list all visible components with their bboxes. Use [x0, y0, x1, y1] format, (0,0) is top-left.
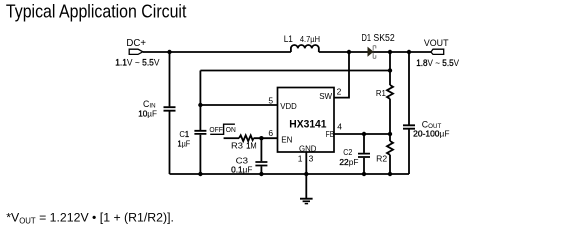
node input junction	[167, 50, 171, 54]
svg-text:4: 4	[337, 122, 342, 132]
wire COUT branch lower	[408, 130, 410, 175]
wire rail from inductor to VOUT port	[319, 51, 431, 53]
node SW rail junction	[347, 50, 351, 54]
wire output divider branch upper	[389, 52, 391, 85]
svg-text:ON: ON	[226, 125, 236, 134]
svg-text:VOUT: VOUT	[424, 38, 449, 48]
svg-text:R1: R1	[376, 88, 386, 98]
wire R1 to FB	[389, 99, 391, 141]
wire C2 branch lower	[363, 158, 365, 174]
switch OFF/ON symbol	[210, 124, 235, 134]
resistor R2 zigzag	[387, 141, 393, 155]
wire C3 branch upper	[260, 138, 262, 161]
capacitor C2 plates	[358, 154, 370, 157]
svg-text:SK52: SK52	[373, 33, 394, 44]
capacitor CIN plates	[164, 107, 176, 111]
wire input rail	[143, 51, 291, 53]
wire CIN branch upper	[169, 52, 171, 106]
svg-text:DC+: DC+	[126, 38, 146, 49]
node diode cathode junction	[388, 50, 392, 54]
svg-text:SW: SW	[319, 92, 332, 101]
wire FB pin 4 net	[334, 133, 390, 135]
ground	[300, 174, 313, 204]
node C1 ground junction	[198, 172, 202, 176]
diode D1 schottky cathode top hook	[373, 46, 376, 51]
svg-text:GND: GND	[299, 145, 316, 154]
svg-text:C1: C1	[179, 129, 189, 139]
wire switch to R3	[224, 137, 239, 139]
svg-text:VDD: VDD	[280, 102, 297, 111]
svg-text:10µF: 10µF	[138, 109, 157, 119]
op-amp U1 HX3141 IC box	[278, 88, 335, 153]
wire ground rail	[170, 173, 410, 175]
svg-text:Typical Application Circuit: Typical Application Circuit	[6, 1, 187, 22]
wire COUT branch upper	[408, 52, 410, 125]
node GND rail junction	[304, 172, 308, 176]
capacitor COUT plates	[403, 125, 415, 128]
diode D1 triangle	[368, 47, 374, 57]
capacitor C1 plates	[194, 131, 206, 134]
wire R2 to ground rail	[389, 155, 391, 174]
wire VDD branch vertical	[199, 71, 201, 131]
svg-text:1: 1	[298, 154, 303, 164]
svg-text:C2: C2	[343, 147, 352, 157]
svg-text:D1: D1	[362, 33, 372, 44]
svg-text:L1: L1	[284, 34, 293, 45]
wire R3 to EN pin 6	[254, 137, 278, 139]
wire SW pin 2 to rail	[334, 52, 349, 98]
node VDD pin junction	[198, 103, 202, 107]
svg-text:OFF: OFF	[209, 125, 223, 134]
node C2 ground junction	[362, 172, 366, 176]
svg-text:4.7µH: 4.7µH	[300, 34, 320, 44]
node FB junction	[388, 132, 392, 136]
resistor R3 zigzag	[239, 135, 254, 141]
wire CIN branch lower	[169, 112, 171, 175]
inductor L1 coil	[291, 45, 319, 52]
node COUT junction	[407, 50, 411, 54]
port DC+ tag	[129, 49, 143, 54]
svg-text:HX3141: HX3141	[289, 119, 326, 131]
resistor R1 zigzag	[387, 85, 393, 99]
wire VDD pin 5	[200, 104, 277, 106]
wire C2 branch upper	[363, 134, 365, 153]
svg-text:R2: R2	[376, 153, 387, 163]
svg-text:FB: FB	[326, 130, 335, 139]
diode D1 schottky cathode bottom hook	[373, 53, 376, 59]
svg-text:5: 5	[268, 96, 273, 106]
svg-text:R3: R3	[231, 141, 243, 151]
svg-text:EN: EN	[281, 136, 292, 145]
node C3 ground junction	[259, 172, 263, 176]
svg-text:6: 6	[268, 128, 273, 138]
svg-text:1M: 1M	[246, 141, 257, 151]
svg-text:1µF: 1µF	[178, 138, 191, 148]
svg-text:22pF: 22pF	[339, 157, 358, 167]
svg-text:3: 3	[309, 154, 314, 164]
capacitor C3 plates	[255, 162, 267, 166]
wire GND pins 1,3	[305, 152, 307, 174]
node R2 ground junction	[388, 172, 392, 176]
node EN/C3 junction	[259, 136, 263, 140]
wire C1 to ground rail	[199, 135, 201, 174]
wire C3 branch lower	[260, 166, 262, 174]
svg-text:20-100µF: 20-100µF	[413, 129, 449, 139]
svg-text:1.8V ~ 5.5V: 1.8V ~ 5.5V	[416, 58, 459, 69]
port VOUT tag	[431, 49, 444, 54]
svg-text:2: 2	[337, 86, 342, 96]
node VDD feed junction	[388, 68, 392, 72]
wire VDD feed horizontal	[200, 70, 390, 72]
node C2 junction	[362, 132, 366, 136]
svg-text:1.1V ~ 5.5V: 1.1V ~ 5.5V	[115, 58, 160, 69]
